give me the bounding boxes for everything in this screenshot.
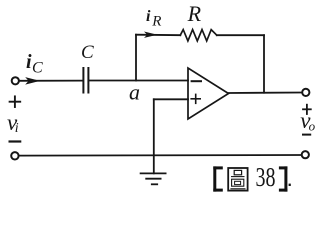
wire resistor to right corner [217, 34, 264, 36]
svg-text:a: a [129, 79, 140, 104]
op-amp U1 triangle [188, 68, 229, 119]
resistor R zigzag [180, 30, 217, 41]
capacitor C right plate [87, 68, 89, 93]
wire ground stem vertical [153, 99, 155, 173]
wire bottom rail [19, 154, 302, 157]
svg-text:38: 38 [256, 162, 276, 192]
arrow current iR [144, 32, 157, 38]
caption bracket left [213, 166, 223, 191]
svg-text:o: o [309, 118, 316, 133]
wire capacitor to op-amp inverting input [89, 80, 188, 82]
plus sign right terminal [303, 108, 311, 110]
wire node a feedback vertical [135, 35, 137, 81]
wire output [229, 92, 302, 95]
minus sign right terminal [303, 134, 310, 136]
capacitor C left plate [82, 68, 84, 93]
caption bracket right [279, 166, 288, 191]
svg-text:i: i [146, 8, 151, 25]
terminal bottom-left [11, 152, 18, 159]
caption period [289, 184, 291, 186]
svg-text:C: C [32, 60, 43, 77]
ground bar 1 [141, 172, 166, 174]
svg-text:R: R [151, 13, 161, 29]
wire non-inverting input horizontal [154, 98, 188, 100]
ground bar 3 [152, 183, 157, 185]
op-amp plus sign [191, 98, 200, 100]
input terminal top-left [12, 77, 19, 84]
output terminal top-right [302, 89, 309, 96]
svg-text:C: C [81, 42, 94, 63]
caption character tu (figure) [228, 168, 247, 191]
svg-text:i: i [15, 121, 19, 136]
wire feedback right vertical [263, 35, 265, 92]
wire input to capacitor [19, 80, 82, 82]
arrow current iC [25, 77, 40, 85]
minus sign left terminal [10, 140, 21, 142]
op-amp minus sign [192, 80, 201, 82]
terminal bottom-right [302, 151, 309, 158]
wire feedback top left segment [136, 34, 180, 37]
svg-text:R: R [187, 1, 202, 26]
ground bar 2 [146, 178, 160, 180]
plus sign left terminal [10, 101, 21, 103]
